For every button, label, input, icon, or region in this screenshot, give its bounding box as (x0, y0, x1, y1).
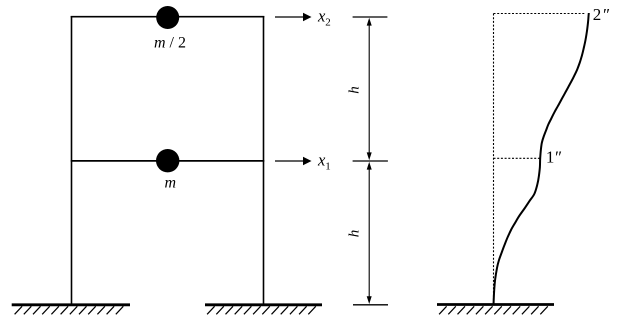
deflected shape curve (494, 13, 589, 305)
left column (71, 16, 73, 304)
dashed vertical reference line (undeflected axis) (493, 14, 495, 305)
right ground hatching (439, 306, 548, 314)
arrow x1 (275, 157, 312, 165)
svg-text:h: h (347, 230, 363, 238)
dimension arrow upper segment (h) (367, 18, 372, 160)
dashed horizontal at mid (1in offset) (494, 157, 541, 159)
svg-text:h: h (347, 86, 363, 94)
right ground line (437, 303, 554, 306)
dimension tick top (353, 16, 388, 18)
mass m/2 (top ball) (156, 6, 179, 29)
top beam (71, 16, 265, 18)
dimension tick bottom (353, 304, 388, 306)
middle beam (71, 160, 265, 162)
right column (263, 16, 265, 304)
right footing hatching (207, 306, 316, 314)
left footing hatching (15, 306, 124, 314)
mass m (middle ball) (156, 149, 179, 172)
arrow x2 (275, 13, 312, 21)
svg-text:m: m (165, 175, 177, 192)
dimension tick middle (353, 160, 388, 162)
dimension arrow lower segment (h) (367, 162, 372, 304)
svg-text:m / 2: m / 2 (154, 35, 186, 52)
svg-text:2: 2 (325, 17, 331, 29)
left footing ground line (12, 303, 130, 306)
svg-text:1: 1 (325, 161, 331, 173)
dashed horizontal at top (2in offset) (494, 13, 587, 15)
svg-text:1″: 1″ (546, 148, 562, 167)
right footing ground line (205, 303, 322, 306)
